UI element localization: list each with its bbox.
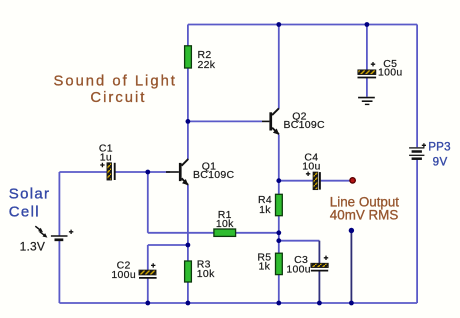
node top rail C5 branch (365, 22, 370, 27)
svg-text:Circuit: Circuit (90, 90, 146, 106)
transistor Q1 (166, 159, 188, 185)
svg-text:Cell: Cell (9, 203, 40, 220)
resistor R3 (185, 261, 192, 282)
wire R4 top lead (278, 181, 280, 194)
capacitor C4 (306, 172, 320, 190)
wire C3 upper lead (318, 241, 320, 264)
wire R5 bottom lead (278, 275, 280, 303)
wire left rail upper (58, 172, 60, 236)
wire top rail (188, 24, 417, 26)
ground (358, 98, 375, 105)
svg-text:Sound of Light: Sound of Light (53, 73, 176, 89)
wire node A down to R1 (147, 172, 149, 233)
node bottom rail C3 (317, 301, 322, 306)
wire right rail lower (416, 159, 418, 303)
node top rail Q2 branch (276, 22, 281, 27)
wire R3 bottom lead (187, 282, 189, 303)
svg-text:100u: 100u (111, 269, 136, 281)
wire C2 upper lead (147, 245, 149, 270)
wire R2 top (187, 25, 189, 46)
resistor R4 (276, 194, 283, 215)
terminal line output (red) (350, 178, 355, 183)
capacitor C1 (100, 163, 115, 180)
svg-text:1u: 1u (100, 151, 112, 163)
svg-text:BC109C: BC109C (283, 119, 325, 131)
capacitor C5 (358, 62, 377, 78)
node bottom rail C2 (145, 301, 150, 306)
resistor R1 (214, 229, 236, 236)
node output return top (349, 228, 354, 233)
wire R1 right (236, 232, 279, 234)
node bottom rail output return (349, 301, 354, 306)
wire left rail lower (58, 240, 60, 303)
wire C1 to Q1 base (116, 171, 171, 173)
svg-text:Solar: Solar (9, 185, 51, 202)
capacitor C2 (139, 263, 157, 278)
wire R3 top lead (187, 245, 189, 261)
wire right rail upper (416, 25, 418, 148)
node bottom rail R5 (276, 301, 281, 306)
wire output ground return (350, 231, 352, 304)
battery B1 solar cell (35, 226, 73, 240)
node R4/R5/R1 (276, 230, 281, 235)
svg-text:10k: 10k (197, 268, 215, 280)
transistor Q2 (262, 108, 279, 135)
wire C5 top lead (366, 25, 368, 71)
wire bottom rail (59, 302, 417, 304)
svg-text:1.3V: 1.3V (20, 239, 45, 253)
svg-text:22k: 22k (198, 59, 216, 71)
node Q1 emitter / R3 / C2 (186, 243, 191, 248)
svg-text:9V: 9V (433, 155, 448, 168)
svg-text:10k: 10k (216, 218, 234, 230)
wire solar cell to C1 (59, 171, 107, 173)
svg-text:100u: 100u (378, 66, 403, 78)
resistor R5 (276, 253, 283, 274)
wire C3 lower lead (318, 271, 320, 303)
wire C3 top horizontal (279, 240, 320, 242)
svg-text:1k: 1k (259, 204, 271, 216)
wire R4 bottom to R5 top (278, 216, 280, 253)
wire C2 top horizontal (148, 244, 188, 246)
wire R1 left (148, 232, 214, 234)
wire Q1 emitter (187, 185, 189, 245)
wire C5 to ground (366, 78, 368, 97)
wire Q1 collector (187, 121, 189, 159)
battery B2 PP3 (409, 143, 426, 159)
svg-text:100u: 100u (286, 263, 311, 275)
wire Q2 emitter (278, 135, 280, 181)
node bottom rail R3 (186, 301, 191, 306)
wire Q2 base (188, 120, 262, 122)
capacitor C3 (311, 256, 328, 271)
svg-text:BC109C: BC109C (193, 169, 235, 181)
wire Q2 collector (278, 25, 280, 109)
resistor R2 (185, 46, 192, 68)
svg-text:10u: 10u (302, 160, 320, 172)
wire C4 left (279, 180, 313, 182)
svg-text:PP3: PP3 (428, 140, 450, 153)
svg-text:40mV RMS: 40mV RMS (330, 208, 399, 223)
wire C4 right to output (320, 180, 349, 182)
svg-text:1k: 1k (259, 260, 271, 272)
node Q1 collector / Q2 base (186, 119, 191, 124)
wire R2 bottom (187, 68, 189, 121)
node Q2 emitter / R4 / C4 (276, 178, 281, 183)
node R5 top / C3 (276, 238, 281, 243)
wire C2 lower lead (147, 278, 149, 303)
node A C1/Q1 base (145, 170, 150, 175)
